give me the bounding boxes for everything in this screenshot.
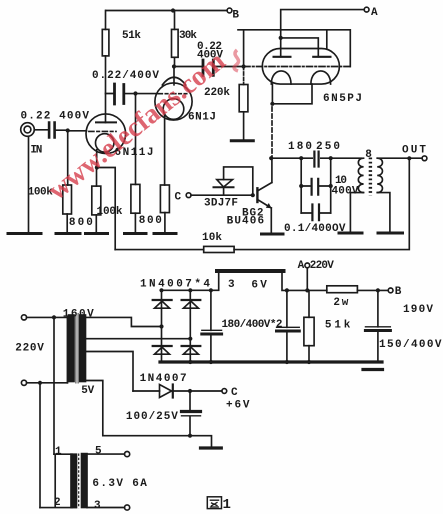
svg-text:BU406: BU406 xyxy=(227,216,265,228)
svg-text:51k: 51k xyxy=(325,320,351,332)
svg-text:100/25V: 100/25V xyxy=(126,411,178,423)
svg-text:10k: 10k xyxy=(202,232,222,244)
svg-text:0.1/400OV: 0.1/400OV xyxy=(284,223,346,235)
svg-text:250: 250 xyxy=(316,141,340,153)
svg-text:OUT: OUT xyxy=(402,145,426,157)
svg-text:220k: 220k xyxy=(204,87,230,99)
svg-text:6N5PJ: 6N5PJ xyxy=(323,93,362,105)
svg-text:51k: 51k xyxy=(122,30,141,42)
svg-text:180: 180 xyxy=(288,141,312,153)
svg-text:B: B xyxy=(395,286,402,298)
svg-text:6.3V 6A: 6.3V 6A xyxy=(92,478,147,490)
svg-text:1: 1 xyxy=(223,497,231,513)
svg-text:5: 5 xyxy=(95,446,102,458)
svg-text:B: B xyxy=(232,10,239,22)
svg-text:190V: 190V xyxy=(403,304,433,316)
svg-text:5V: 5V xyxy=(81,385,94,397)
svg-text:150/400V: 150/400V xyxy=(379,339,442,351)
svg-text:C: C xyxy=(175,192,182,204)
svg-text:2: 2 xyxy=(54,497,61,509)
svg-text:800: 800 xyxy=(69,217,93,229)
svg-text:A: A xyxy=(371,7,378,19)
svg-text:180/400V*2: 180/400V*2 xyxy=(222,319,283,331)
svg-text:C: C xyxy=(231,387,238,399)
svg-text:3: 3 xyxy=(94,500,101,512)
svg-text:IN: IN xyxy=(30,145,42,157)
svg-text:3DJ7F: 3DJ7F xyxy=(204,198,238,210)
svg-text:6V: 6V xyxy=(251,280,267,292)
svg-text:400V: 400V xyxy=(332,186,359,198)
svg-text:6N1J: 6N1J xyxy=(188,112,216,124)
svg-text:+6V: +6V xyxy=(226,400,250,412)
svg-text:0.22/400V: 0.22/400V xyxy=(92,70,159,82)
svg-text:3: 3 xyxy=(228,279,235,291)
svg-text:800: 800 xyxy=(139,215,162,227)
svg-text:30k: 30k xyxy=(179,30,197,42)
svg-text:8: 8 xyxy=(365,149,372,161)
svg-text:A: A xyxy=(298,260,305,272)
svg-text:160V: 160V xyxy=(63,309,94,321)
svg-text:1: 1 xyxy=(55,446,62,458)
svg-text:0.22 400V: 0.22 400V xyxy=(21,111,90,123)
svg-text:1N4007: 1N4007 xyxy=(140,373,187,385)
svg-text:220V: 220V xyxy=(310,260,334,272)
svg-text:1N4007*4: 1N4007*4 xyxy=(140,279,210,291)
svg-text:2w: 2w xyxy=(333,297,348,309)
svg-text:100k: 100k xyxy=(97,206,123,218)
svg-text:220V: 220V xyxy=(15,343,44,355)
